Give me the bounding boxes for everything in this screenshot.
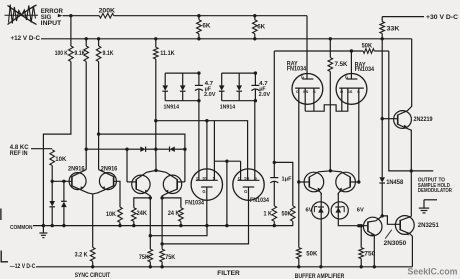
wire top signal corner down to FN1034-t1 gate (306, 16, 308, 79)
svg-text:6V: 6V (306, 208, 313, 214)
resistor 1K (272, 206, 277, 222)
resistor 9.1K first (85, 37, 88, 40)
svg-text:+12 V D-C: +12 V D-C (11, 35, 41, 42)
wire 50K-line left corner down (273, 51, 275, 162)
FET RAY FN1034 (demod) (292, 74, 323, 105)
wire filter left emitter down (149, 198, 151, 249)
svg-text:2N3050: 2N3050 (384, 240, 407, 247)
diode filter right (156, 148, 170, 150)
svg-text:1μF: 1μF (282, 176, 292, 182)
zener 6V left (312, 202, 329, 219)
svg-text:SS: SS (244, 175, 250, 180)
svg-text:75K: 75K (165, 254, 175, 261)
transistor filter left (132, 175, 150, 193)
wire filter base left feed (86, 148, 127, 150)
wire +30V (382, 16, 424, 18)
svg-text:G: G (301, 74, 304, 79)
svg-text:INPUT: INPUT (41, 20, 62, 27)
capacitor 1uF (273, 162, 275, 177)
svg-text:33K: 33K (387, 26, 400, 33)
svg-text:—12 V D-C: —12 V D-C (10, 263, 36, 270)
node 9.1K-1 / filter wire (85, 148, 88, 151)
ground common (42, 224, 45, 227)
scan edge marks (0, 209, 2, 221)
svg-text:FN1034: FN1034 (185, 199, 204, 206)
svg-text:+30 V D-C: +30 V D-C (426, 14, 458, 21)
svg-text:7.5K: 7.5K (335, 61, 348, 68)
wire clamp box top rail (165, 72, 199, 74)
svg-text:200K: 200K (99, 7, 116, 14)
input arrow (58, 14, 63, 17)
svg-text:1N914: 1N914 (220, 105, 236, 111)
wire filter right base feed (99, 134, 185, 182)
node buffer collectors (329, 169, 332, 172)
svg-text:BUFFER AMPLIFIER: BUFFER AMPLIFIER (295, 273, 345, 279)
svg-text:FN1034: FN1034 (355, 66, 375, 73)
wire S pin FN1034-t2 long down (358, 88, 360, 182)
node 1N458 to transistors (381, 214, 384, 217)
wire 9.1K-1 down to sync (85, 62, 87, 150)
FET FN1034 (filter) (191, 169, 222, 200)
resistor 200K (99, 13, 114, 18)
svg-text:6K: 6K (202, 22, 210, 29)
error signal waveform symbol (8, 6, 37, 25)
wire gate FN1034-b2 down (248, 187, 250, 226)
transistor 2N916 first (69, 173, 86, 190)
wire clamp box bottom rail (165, 100, 199, 102)
svg-text:SS: SS (303, 89, 309, 94)
transistor 2N916 second (99, 173, 116, 190)
wire 75K-left to common (150, 226, 207, 236)
node bridge center tap (225, 160, 228, 163)
node 1uF (273, 161, 276, 164)
svg-text:SYNC CIRCUIT: SYNC CIRCUIT (75, 272, 111, 279)
transistor buffer left (304, 172, 324, 192)
wire 9.1K-2 down (98, 62, 100, 135)
wire -12V rail (36, 266, 412, 268)
svg-text:6K: 6K (257, 23, 265, 30)
FET RAY FN1034 (demod) (336, 74, 367, 105)
svg-text:G: G (345, 74, 348, 79)
wire 11.1K down to filter collectors (155, 59, 157, 121)
wire down to filter-left base (126, 149, 128, 182)
resistor 100K (69, 46, 74, 62)
resistor 10K sync right (118, 207, 123, 222)
wire common emitters to 3.2K (92, 194, 94, 248)
diode sync left (51, 181, 53, 201)
svg-text:9.1K: 9.1K (103, 50, 114, 57)
diode sync right (63, 181, 65, 201)
svg-text:75K: 75K (139, 254, 149, 261)
svg-text:G: G (202, 189, 205, 194)
wire 1uF node to 50K mid (274, 162, 293, 205)
wire S pin FN1034-b2 from clamp box 2 (254, 101, 256, 181)
svg-text:50K: 50K (362, 42, 373, 49)
transistor 2N3251 (395, 216, 414, 235)
wire zener right to 2N3050 base (338, 219, 368, 226)
wire clamp box top rail (222, 72, 256, 74)
wire clamp box bottom rail (222, 100, 256, 102)
wire error node down (70, 16, 72, 46)
svg-text:10K: 10K (55, 156, 66, 163)
capacitor 4.7uF (254, 73, 256, 85)
resistor 9.1K second (97, 37, 100, 40)
diode filter left (127, 148, 140, 150)
resistor 6K second (253, 14, 256, 17)
svg-text:SeekIC.com: SeekIC.com (408, 267, 458, 278)
diode 1N458 (381, 119, 383, 178)
svg-text:6V: 6V (357, 208, 364, 214)
wire base node to 2N916-1 (52, 180, 72, 182)
wire output stub (411, 170, 433, 172)
resistor 11.1K (154, 37, 157, 40)
svg-text:1 K: 1 K (264, 210, 273, 217)
wire filter right emitter down (161, 198, 163, 249)
node output (410, 169, 413, 172)
wire 7.5K down to buffer collectors (329, 72, 331, 171)
node 75K right tap (160, 242, 163, 245)
resistor 50K top (363, 49, 374, 54)
wire D pin FN1034-t1 long down (298, 88, 300, 182)
zener 6V right (331, 202, 348, 219)
node filter collectors (154, 169, 157, 172)
wire SS wire from 11.1K node (156, 121, 248, 181)
resistor 75K left (148, 249, 153, 262)
wire SS pin FN1034-b1 (205, 119, 208, 122)
node 9.1K-2 / wire to filter right base (97, 132, 100, 135)
svg-text:2.0V: 2.0V (204, 92, 216, 98)
resistor 24K right (160, 196, 163, 199)
svg-text:COMMON: COMMON (10, 225, 33, 231)
svg-text:10K: 10K (106, 211, 116, 218)
svg-text:2N3251: 2N3251 (418, 222, 439, 229)
svg-text:FILTER: FILTER (217, 270, 240, 277)
resistor 50K buffer (298, 182, 300, 248)
svg-text:11.1K: 11.1K (160, 50, 175, 57)
wire error node to 200K (71, 15, 99, 17)
wire 33K down to 2N2219 base (381, 34, 383, 119)
svg-text:DEMODULATOR: DEMODULATOR (418, 188, 452, 194)
wire error input to node (63, 15, 71, 17)
FET FN1034 (filter) (233, 169, 264, 200)
wire 50K right corner to output (389, 51, 412, 171)
diode 1N914 right (182, 73, 184, 85)
svg-text:2N2219: 2N2219 (414, 116, 433, 123)
node sync base (51, 180, 54, 183)
resistor 750 (360, 226, 362, 248)
resistor 6K first (197, 14, 200, 17)
wire 4.8KC ref in (31, 148, 52, 150)
svg-text:2.0V: 2.0V (259, 92, 271, 98)
resistor 3.2K (90, 247, 95, 261)
wire common rail (33, 225, 293, 227)
svg-text:24K: 24K (137, 210, 148, 217)
resistor 50K mid (291, 206, 296, 222)
wire D pin FN1034-t2 (341, 88, 343, 111)
svg-text:FN1034: FN1034 (250, 197, 269, 204)
node 75K left tap (149, 234, 152, 237)
transistor filter right (163, 175, 181, 193)
svg-text:1N914: 1N914 (164, 105, 180, 111)
transistor buffer right (336, 172, 356, 192)
wire to 2N3251 base jog (382, 216, 400, 224)
resistor 75K right (160, 249, 165, 262)
pointer 2N3050 (385, 230, 392, 239)
svg-text:REF IN: REF IN (10, 150, 28, 157)
wire to 2N3050 collector (376, 216, 382, 221)
wire D pin FN1034-b1 from clamp box 1 (198, 101, 200, 181)
wire 50K line (274, 50, 363, 52)
ground output (424, 199, 437, 201)
transistor 2N2219 (394, 111, 412, 129)
diode 1N914 left (164, 73, 166, 85)
wire gate FN1034-t2 (350, 51, 352, 79)
svg-text:9.1K: 9.1K (74, 50, 85, 57)
diode 1N914 right (238, 73, 240, 85)
svg-text:100 K: 100 K (55, 50, 68, 57)
svg-text:24 K: 24 K (168, 210, 180, 217)
wire S pin FN1034-b1 (213, 121, 215, 181)
svg-text:50K: 50K (306, 250, 317, 257)
svg-text:2N916: 2N916 (101, 165, 118, 172)
wire SS S pins FN1034-t1 bracket (304, 88, 306, 111)
resistor 7.5K (329, 37, 332, 40)
svg-text:50K: 50K (282, 210, 292, 217)
wire rail corner to 2N2219 collector (407, 39, 411, 111)
wire 10K to base node (51, 166, 53, 182)
svg-text:3.2 K: 3.2 K (75, 251, 88, 258)
svg-text:FN1034: FN1034 (287, 65, 307, 72)
svg-text:G: G (244, 189, 247, 194)
wire 100K down to jog (43, 62, 71, 226)
wire 2N916-2 base corner (114, 181, 120, 207)
diode 1N914 left (221, 73, 223, 85)
svg-text:1N458: 1N458 (386, 179, 403, 186)
wire +12V rail (41, 38, 412, 40)
resistor 33K (381, 17, 383, 22)
wire 75K-right to FN1034-2 gate (162, 226, 248, 244)
transistor 2N3050 (363, 217, 382, 236)
resistor 24K left (149, 196, 152, 199)
resistor 10K ref (50, 150, 55, 166)
svg-text:2N916: 2N916 (68, 165, 85, 172)
node error input junction (69, 14, 72, 17)
capacitor 4.7uF (198, 73, 200, 85)
wire 200K to right corner (114, 15, 307, 17)
wire bridge S1 to D2 (214, 160, 240, 162)
wire gate FN1034-b1 to common (206, 187, 208, 226)
